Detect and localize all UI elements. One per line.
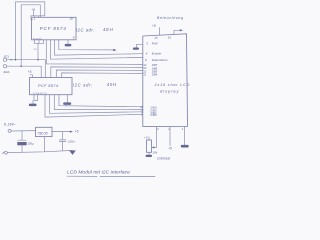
svg-text:40H: 40H xyxy=(107,82,117,87)
LCD pin numbers 10-7 xyxy=(140,105,143,117)
svg-text:display: display xyxy=(160,89,179,94)
svg-text:3: 3 xyxy=(157,127,159,131)
label 8..16Vac xyxy=(4,123,16,127)
capacitor C1 100u electrolytic xyxy=(17,131,26,153)
wire IC U2 to LCD DB6 pin 13 xyxy=(51,67,143,78)
IC U1 address pins A0-A2 ticks to +5 xyxy=(31,11,45,17)
LCD interior label 2x16 char LCD display xyxy=(154,83,191,94)
svg-text:DB0: DB0 xyxy=(151,113,158,117)
value label 100n xyxy=(68,140,75,144)
net label +5 at pot xyxy=(144,135,148,139)
wire SCL line to IC U2 xyxy=(7,59,46,78)
ground symbol at rail end xyxy=(69,150,76,155)
net label +5 at IC U2 xyxy=(28,70,32,74)
wire SDA line to IC U2 xyxy=(7,65,42,77)
IC U2 VDD pin +5 xyxy=(30,75,33,78)
LCD labels DB3-DB0 xyxy=(151,105,158,117)
LCD pin number 15 xyxy=(154,36,158,40)
LCD bottom pin numbers 3 2 1 xyxy=(157,127,184,131)
capacitor C2 100n xyxy=(59,132,66,151)
net label +5 at IC U1 top xyxy=(31,8,35,12)
terminal GND input xyxy=(2,151,7,154)
terminal AC input xyxy=(8,129,11,132)
IC U2 PCF8574 body xyxy=(30,78,73,95)
label SDA xyxy=(3,70,9,74)
svg-text:10k: 10k xyxy=(152,151,157,155)
svg-text:+5: +5 xyxy=(168,147,172,151)
svg-text:5: 5 xyxy=(146,42,148,46)
terminal SCL xyxy=(3,58,6,61)
svg-text:PCF 8574: PCF 8574 xyxy=(38,83,59,88)
IC U1 PCF8574 body xyxy=(32,17,77,40)
svg-text:1: 1 xyxy=(182,127,184,131)
svg-text:+5: +5 xyxy=(75,130,79,134)
IC U1 SDA SCL tiny labels xyxy=(34,48,38,51)
wire AC input to regulator xyxy=(11,130,35,132)
LCD pin number 5 and label R/W xyxy=(146,42,158,46)
svg-text:+5: +5 xyxy=(31,8,35,12)
LCD pin 16 arrow xyxy=(174,29,183,34)
IC U1 top pin numbers 1 2 3 xyxy=(30,19,36,21)
wire IC U1 SCL down to SCL line xyxy=(37,43,39,59)
regulator U3 78L05 body xyxy=(36,127,53,136)
IC U1 address note I2C adr: 4EH xyxy=(76,27,114,32)
wire IC U1 to LCD RS pin 4 xyxy=(55,40,143,55)
svg-text:SCL: SCL xyxy=(4,54,10,58)
svg-text:I2C adr:: I2C adr: xyxy=(73,82,93,87)
svg-text:15: 15 xyxy=(154,36,158,40)
terminal SDA xyxy=(3,65,6,68)
svg-text:+5: +5 xyxy=(28,70,32,74)
IC U2 address note I2C adr: 40H xyxy=(73,82,117,87)
svg-text:s s: s s xyxy=(34,48,38,51)
svg-text:16: 16 xyxy=(168,35,172,39)
wire regulator output +5 xyxy=(52,131,73,133)
LCD pin number 4 and label Enable xyxy=(146,52,162,56)
IC U1 label PCF 8574 xyxy=(40,26,67,31)
svg-text:78L05: 78L05 xyxy=(37,132,48,136)
pot top terminal to +5 xyxy=(148,137,150,140)
value label 10k xyxy=(152,151,157,155)
wire IC U2 to LCD DB1 pin 8 xyxy=(50,95,143,114)
IC U2 label PCF 8574 xyxy=(38,83,59,88)
IC U1 bottom SDA/SCL pins bracket xyxy=(34,40,43,44)
svg-text:2x16 char LCD: 2x16 char LCD xyxy=(154,83,191,87)
LCD pin number 16 xyxy=(168,35,172,39)
wire IC U1 to LCD DB7 pin 14 xyxy=(46,40,143,65)
svg-text:8..16V~: 8..16V~ xyxy=(4,123,16,127)
svg-text:1 2 3: 1 2 3 xyxy=(30,19,36,21)
LCD VDD pin 2 to +5 xyxy=(169,126,171,145)
svg-text:100μ: 100μ xyxy=(27,141,34,145)
pot bottom terminal to ground xyxy=(146,152,152,157)
wire IC U2 to LCD DB0 pin 7 xyxy=(45,95,143,117)
svg-text:I2C adr:: I2C adr: xyxy=(76,27,95,32)
svg-text:Datenübern.: Datenübern. xyxy=(152,58,169,62)
LCD R/W pin 5 to ground xyxy=(133,44,143,49)
IC U1 bottom pin numbers 15 14 13 xyxy=(33,37,42,40)
IC U1 pin 8 number xyxy=(73,35,75,39)
svg-text:DB4: DB4 xyxy=(152,73,158,77)
wire IC U1 to LCD E pin 6 xyxy=(51,40,143,59)
IC U2 address pins to ground xyxy=(29,95,38,106)
svg-text:16: 16 xyxy=(70,16,74,20)
wire +5 loop from IC1 A-pins over top-left down to SCL node xyxy=(16,2,45,60)
LCD pin number 6 and label Datenübern xyxy=(145,58,168,62)
svg-text:LCD Modul mit I2C interface: LCD Modul mit I2C interface xyxy=(67,170,130,176)
title LCD Modul mit I2C interface xyxy=(67,170,155,177)
LCD contrast pin 3 wire to pot wiper xyxy=(152,126,157,148)
LCD module body xyxy=(143,34,188,127)
LCD VSS pin 1 to ground xyxy=(181,126,189,147)
wire IC U1 P? to backlight arrow xyxy=(59,40,117,51)
potentiometer R1 10k body xyxy=(147,140,152,152)
label Beleuchtung xyxy=(157,16,184,20)
svg-text:4: 4 xyxy=(146,52,148,56)
svg-text:+5: +5 xyxy=(152,24,156,28)
IC U1 pin 16 number xyxy=(70,16,74,20)
svg-text:Beleuchtung: Beleuchtung xyxy=(157,16,184,20)
wire IC U2 to LCD DB3 pin 10 xyxy=(59,95,143,107)
svg-text:6: 6 xyxy=(145,58,147,62)
net label +5 backlight xyxy=(152,24,156,28)
label Contrast xyxy=(157,157,171,161)
svg-text:15 14 13: 15 14 13 xyxy=(33,37,42,40)
svg-text:Enable: Enable xyxy=(152,52,162,56)
wire ground rail xyxy=(7,150,72,152)
svg-text:+5: +5 xyxy=(144,135,148,139)
wire IC U2 to LCD DB5 pin 12 xyxy=(56,70,143,78)
wire IC U2 to LCD DB4 pin 11 xyxy=(62,73,143,78)
net label +5 at LCD pin 2 xyxy=(168,147,172,151)
wire from IC1 VDD over top-left down to SDA node xyxy=(21,5,40,66)
net label +5 regulator output xyxy=(75,130,79,134)
IC U2 bottom pin numbers xyxy=(33,92,48,95)
svg-text:Contrast: Contrast xyxy=(157,157,171,161)
svg-text:R/W: R/W xyxy=(152,42,159,46)
svg-text:PCF 8574: PCF 8574 xyxy=(40,26,67,31)
svg-text:SDA: SDA xyxy=(3,70,9,74)
regulator ground pin xyxy=(44,137,46,152)
LCD pin numbers 14-11 xyxy=(143,63,146,76)
value label 100u xyxy=(27,141,34,145)
regulator label 78L05 xyxy=(37,132,48,136)
wire IC U2 to LCD DB2 pin 9 xyxy=(54,95,143,110)
IC U1 ground pin 8 xyxy=(65,40,72,47)
svg-text:8: 8 xyxy=(73,35,75,39)
LCD pin 15 to +5 xyxy=(159,28,161,35)
stray tick on DB3 line xyxy=(65,104,67,107)
svg-text:4EH: 4EH xyxy=(103,27,114,32)
IC U2 ground pin xyxy=(63,95,71,105)
label SCL xyxy=(4,54,10,58)
svg-text:100n: 100n xyxy=(68,140,75,144)
LCD labels DB7-DB4 xyxy=(152,63,158,76)
